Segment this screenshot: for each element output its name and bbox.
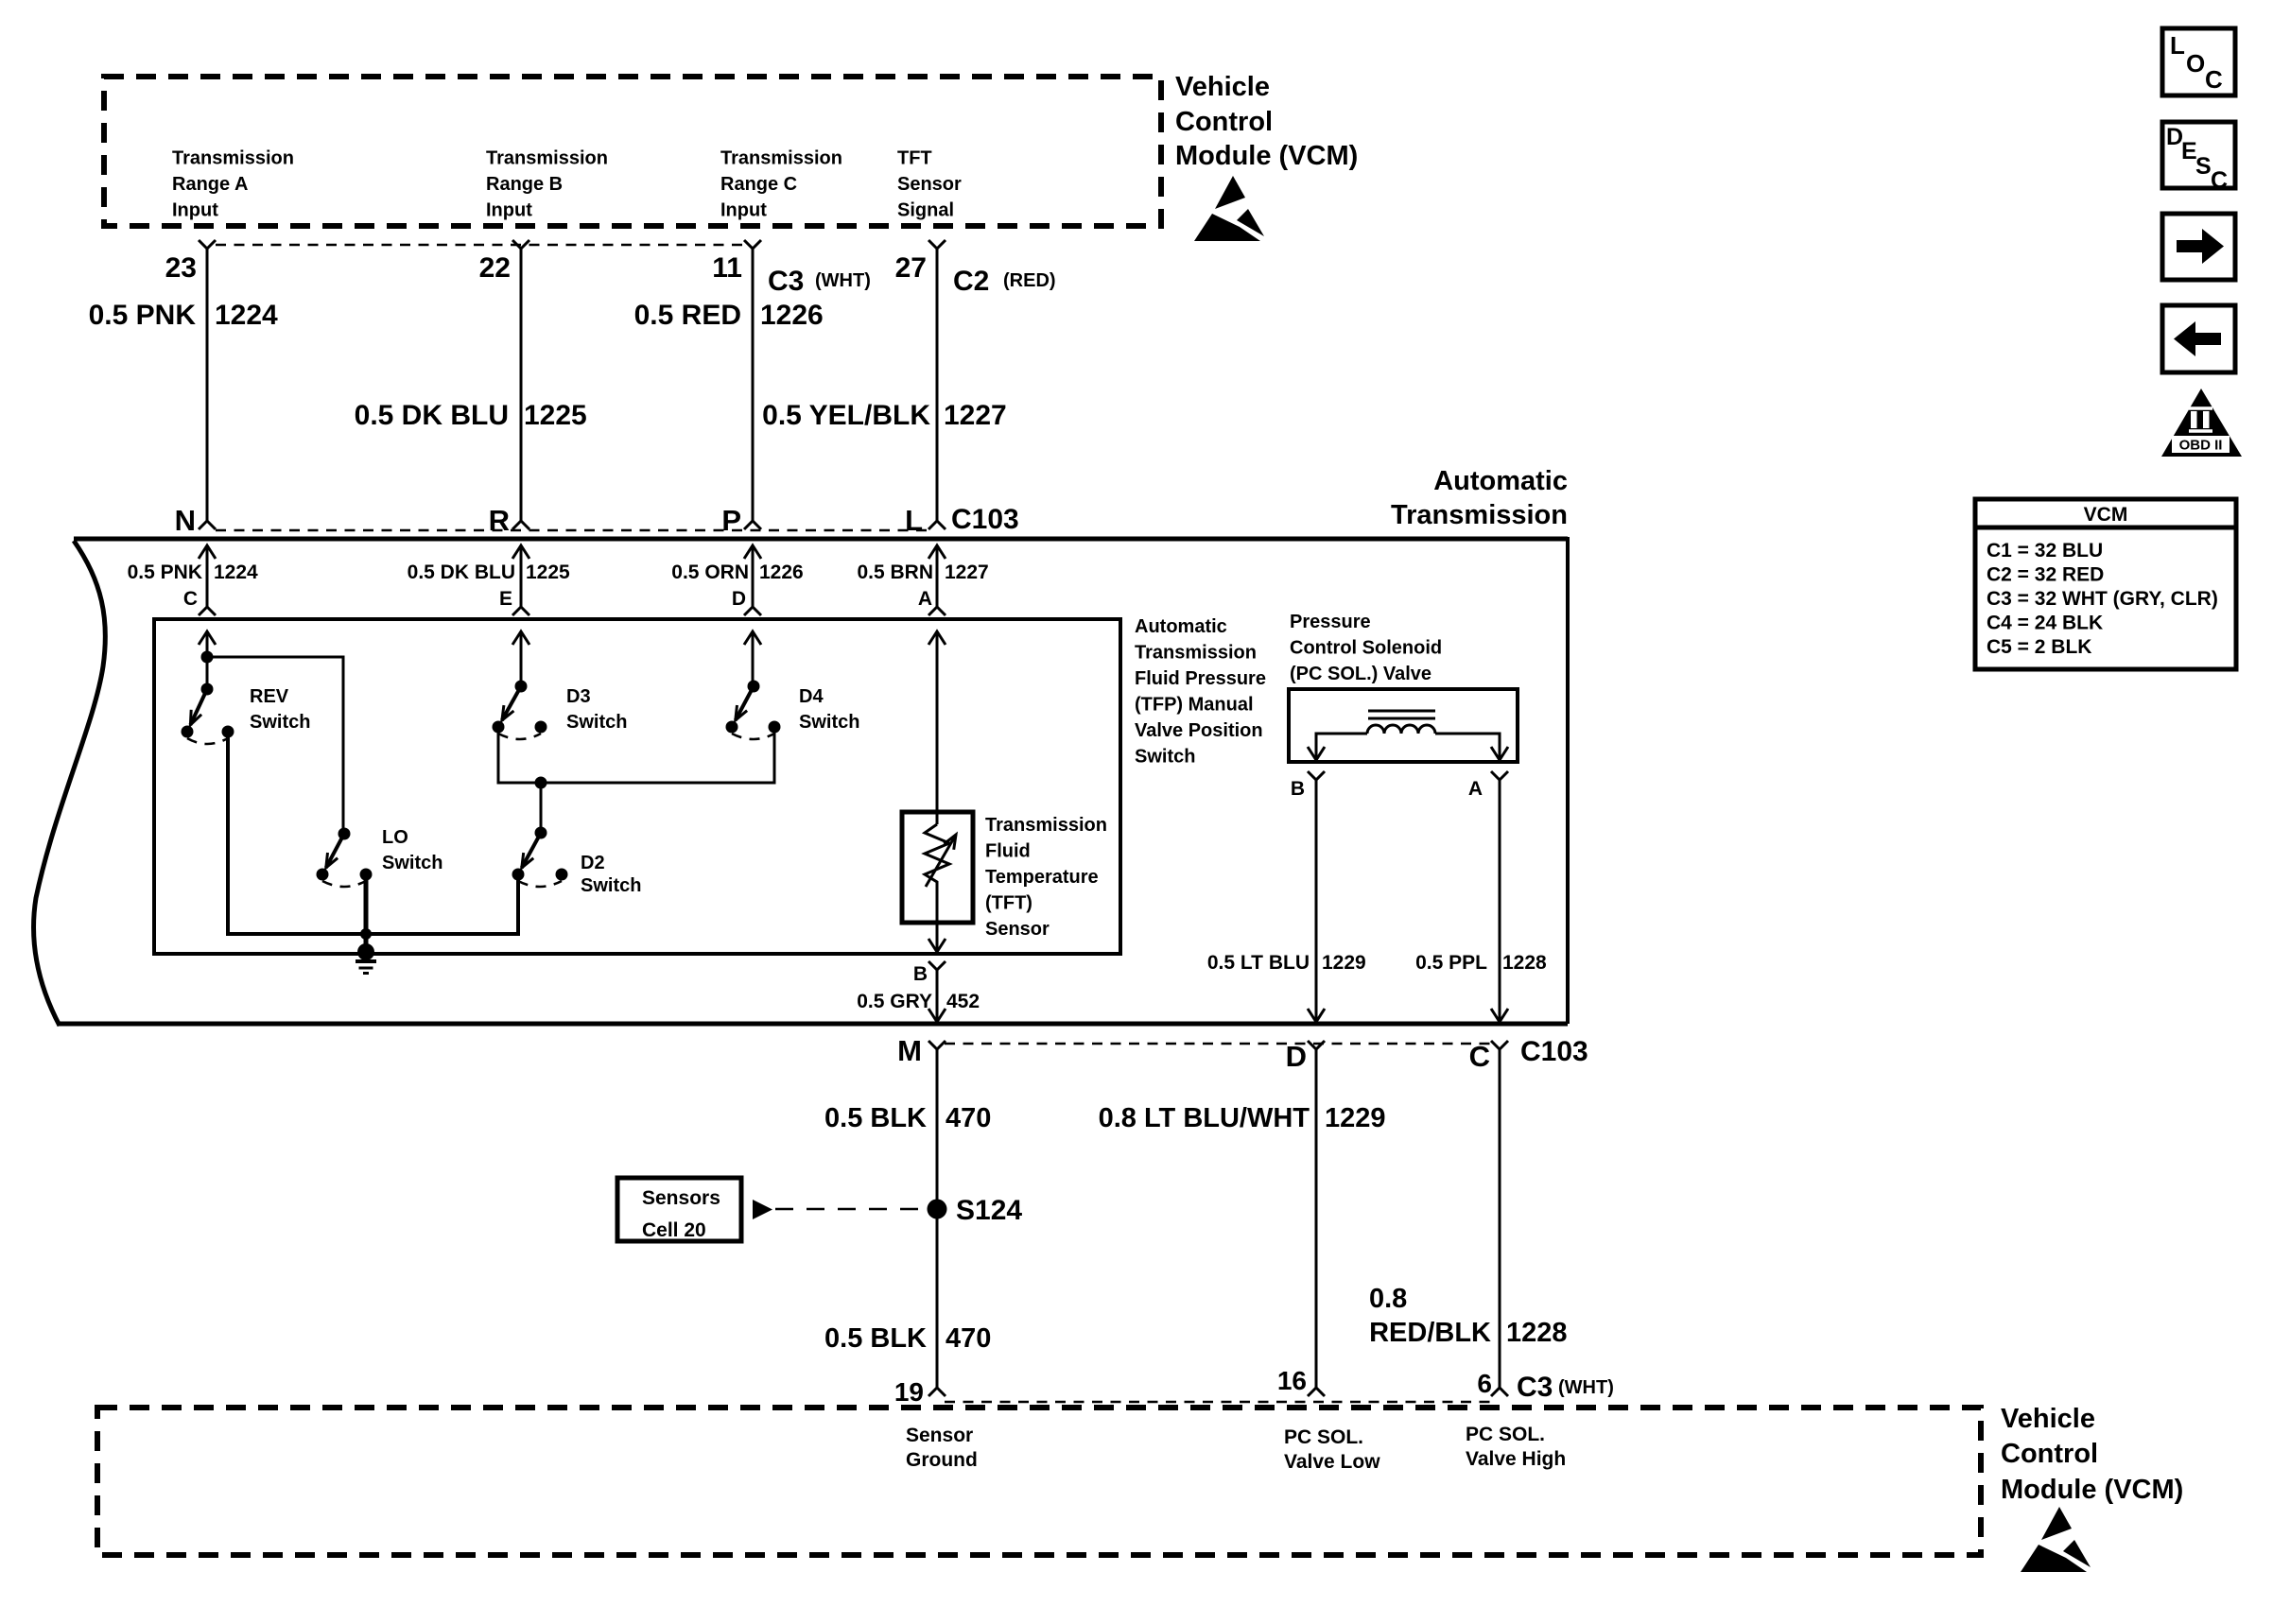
wire label 0.5 PNK 1224	[89, 300, 278, 331]
wire 470 BLK sensor ground	[936, 1049, 939, 1388]
wire label 0.5 RED 1226	[634, 300, 824, 331]
svg-text:S: S	[2195, 153, 2212, 180]
svg-text:0.5 PPL: 0.5 PPL	[1415, 952, 1487, 974]
TFP pin C	[183, 588, 216, 615]
pin label: Transmission Range C Input	[720, 148, 842, 221]
wire label 0.5 DK BLU 1225 inner	[408, 561, 570, 583]
svg-text:1227: 1227	[945, 561, 989, 583]
leader arrow triangle	[753, 1200, 772, 1219]
svg-text:(WHT): (WHT)	[815, 270, 871, 291]
Sensors Cell 20 reference box	[617, 1178, 741, 1241]
wire stub arrow into AT box col3	[744, 545, 761, 607]
bottom VCM module dashed box	[97, 1408, 1981, 1555]
svg-text:Input: Input	[720, 200, 767, 221]
svg-text:D3: D3	[566, 686, 591, 707]
svg-text:D: D	[732, 588, 746, 610]
VCM connector face dashed line bottom	[945, 1401, 1492, 1404]
wire: D3 contact to D3-D4 rail	[498, 727, 774, 783]
svg-text:19: 19	[894, 1377, 924, 1407]
wire label 0.5 DK BLU 1225	[355, 400, 587, 431]
splice S124	[928, 1195, 1023, 1226]
svg-text:470: 470	[946, 1323, 991, 1354]
svg-text:0.5 LT BLU: 0.5 LT BLU	[1207, 952, 1310, 974]
PC SOL pin B	[1291, 771, 1325, 800]
svg-text:16: 16	[1277, 1366, 1307, 1395]
svg-text:C: C	[2205, 65, 2223, 94]
svg-text:Valve Position: Valve Position	[1135, 720, 1263, 741]
svg-text:Control Solenoid: Control Solenoid	[1290, 638, 1442, 659]
wire: REV contact down to ground rail	[228, 732, 518, 934]
svg-text:Automatic: Automatic	[1135, 616, 1227, 637]
svg-text:Module (VCM): Module (VCM)	[2001, 1475, 2183, 1505]
REV switch input arrow	[199, 631, 216, 689]
label: Sensor Ground	[906, 1425, 978, 1471]
svg-text:11: 11	[712, 252, 742, 284]
svg-text:1225: 1225	[524, 400, 587, 431]
svg-text:Range A: Range A	[172, 174, 248, 195]
solenoid coil	[1367, 725, 1435, 734]
svg-text:1226: 1226	[759, 561, 804, 583]
svg-text:S124: S124	[956, 1195, 1022, 1226]
pin number 27	[895, 252, 927, 284]
svg-text:C4 = 24 BLK: C4 = 24 BLK	[1987, 613, 2103, 634]
svg-text:Fluid Pressure: Fluid Pressure	[1135, 668, 1266, 689]
automatic transmission box bottom edge	[59, 1022, 1568, 1027]
svg-text:1226: 1226	[760, 300, 824, 331]
svg-text:Sensors: Sensors	[642, 1187, 720, 1209]
svg-text:A: A	[1468, 778, 1483, 800]
wire stub arrow into AT box col4	[928, 545, 946, 607]
pin label: Transmission Range A Input	[172, 148, 294, 221]
DESC legend box	[2162, 122, 2235, 194]
wire 1229 LT BLU/WHT lower	[1315, 1049, 1318, 1388]
TFP pin B fork	[913, 961, 946, 985]
svg-text:Switch: Switch	[581, 875, 641, 896]
svg-text:Transmission: Transmission	[985, 815, 1107, 836]
D3 switch	[493, 681, 628, 740]
svg-text:23: 23	[165, 252, 197, 284]
svg-text:P: P	[721, 504, 741, 537]
pin 23 connector fork	[199, 240, 216, 249]
svg-text:1228: 1228	[1502, 952, 1547, 974]
svg-text:27: 27	[895, 252, 927, 284]
svg-text:M: M	[897, 1034, 922, 1067]
svg-text:LO: LO	[382, 827, 408, 848]
svg-text:(TFT): (TFT)	[985, 893, 1032, 914]
pin 11 connector fork	[744, 240, 761, 249]
svg-text:L: L	[2170, 31, 2185, 60]
svg-text:C3: C3	[1517, 1372, 1553, 1403]
svg-text:Input: Input	[172, 200, 218, 221]
TFP pin E	[499, 588, 529, 615]
wire label 0.5 YEL/BLK 1227	[762, 400, 1007, 431]
wire label 0.5 BLK 470 lower	[824, 1323, 991, 1354]
svg-text:0.5 PNK: 0.5 PNK	[128, 561, 202, 583]
wire label 0.5 GRY 452	[857, 991, 980, 1012]
svg-text:Module (VCM): Module (VCM)	[1175, 141, 1358, 171]
svg-text:0.5 BRN: 0.5 BRN	[857, 561, 933, 583]
PC SOL pin A	[1468, 771, 1508, 800]
svg-text:Switch: Switch	[566, 712, 627, 733]
D2 switch	[512, 827, 642, 897]
connector fork M	[897, 1034, 946, 1067]
connector id C3 (WHT) bottom	[1517, 1372, 1614, 1403]
node: rail junction to D2	[535, 777, 547, 834]
automatic transmission box right edge	[1566, 537, 1570, 1024]
C103 connector face dashed line	[216, 529, 929, 532]
node: REV-LO branch junction	[201, 651, 214, 664]
svg-text:1229: 1229	[1322, 952, 1366, 974]
node L	[905, 504, 923, 537]
svg-text:452: 452	[946, 991, 980, 1012]
wire: LO contact down to ground	[364, 874, 369, 951]
svg-text:Valve Low: Valve Low	[1284, 1451, 1380, 1473]
svg-text:Valve High: Valve High	[1466, 1448, 1566, 1470]
svg-text:Ground: Ground	[906, 1449, 978, 1471]
svg-text:D: D	[1286, 1040, 1307, 1073]
svg-text:0.5 ORN: 0.5 ORN	[671, 561, 749, 583]
wire label 0.5 BRN 1227 inner	[857, 561, 988, 583]
label: PC SOL. Valve High	[1466, 1424, 1566, 1470]
svg-text:C: C	[183, 588, 198, 610]
svg-text:RED/BLK: RED/BLK	[1369, 1318, 1491, 1348]
pin 6	[1477, 1369, 1508, 1398]
wire label 0.5 PPL 1228	[1415, 952, 1547, 974]
TFT thermistor element	[925, 824, 956, 892]
svg-text:(PC SOL.) Valve: (PC SOL.) Valve	[1290, 664, 1431, 684]
svg-text:Range B: Range B	[486, 174, 563, 195]
left arrow legend box	[2162, 305, 2235, 372]
wire 1225 DK BLU vertical VCM to C103	[520, 249, 523, 521]
svg-text:B: B	[1291, 778, 1305, 800]
automatic transmission box torn left edge curve	[34, 541, 106, 1026]
svg-text:1229: 1229	[1325, 1103, 1386, 1133]
svg-text:Automatic: Automatic	[1433, 466, 1568, 496]
svg-text:1224: 1224	[214, 561, 258, 583]
LOC legend box	[2162, 28, 2235, 95]
svg-text:D2: D2	[581, 853, 605, 873]
wire stub arrow into AT box col2	[512, 545, 529, 607]
connector fork C lower	[1469, 1040, 1508, 1073]
wire 1228 RED/BLK lower	[1499, 1049, 1501, 1388]
wire label 0.5 PNK 1224 inner	[128, 561, 258, 583]
svg-text:REV: REV	[250, 686, 289, 707]
svg-text:Transmission: Transmission	[1391, 500, 1568, 530]
pin 16	[1277, 1366, 1325, 1396]
svg-text:Sensor: Sensor	[897, 174, 962, 195]
svg-text:C1 = 32 BLU: C1 = 32 BLU	[1987, 540, 2103, 561]
wire 452 GRY TFT to C103	[928, 970, 946, 1022]
label: Vehicle Control Module (VCM) bottom	[2001, 1404, 2183, 1505]
TFT sensor output arrow	[928, 892, 946, 952]
svg-text:22: 22	[479, 252, 511, 284]
svg-text:VCM: VCM	[2084, 504, 2128, 526]
ESD static-sensitive symbol bottom	[2021, 1507, 2091, 1572]
wire 1224 PNK vertical VCM to C103	[206, 249, 209, 521]
connector id C103 lower	[1520, 1036, 1588, 1067]
wire label 0.5 ORN 1226 inner	[671, 561, 803, 583]
REV switch	[182, 683, 311, 745]
wire label 0.8 LT BLU/WHT 1229	[1099, 1103, 1386, 1133]
pin label: Transmission Range B Input	[486, 148, 608, 221]
svg-text:Fluid: Fluid	[985, 841, 1031, 862]
svg-text:0.5 YEL/BLK: 0.5 YEL/BLK	[762, 400, 930, 431]
wire 1226 RED vertical VCM to C103	[752, 249, 755, 521]
svg-text:Input: Input	[486, 200, 532, 221]
wire: branch to LO switch	[207, 657, 343, 834]
ESD static-sensitive symbol top	[1194, 176, 1264, 241]
pin number 22	[479, 252, 511, 284]
node: ground rail junction	[360, 928, 372, 940]
svg-text:1227: 1227	[944, 400, 1007, 431]
svg-text:Switch: Switch	[250, 712, 310, 733]
C103 lower connector face dashed line	[945, 1043, 1492, 1045]
svg-text:0.5 BLK: 0.5 BLK	[824, 1103, 927, 1133]
connector fork P	[744, 521, 761, 529]
label: Transmission Fluid Temperature (TFT) Sensor	[985, 815, 1107, 940]
svg-text:Pressure: Pressure	[1290, 612, 1371, 632]
transmission fluid temperature TFT sensor box	[902, 812, 973, 923]
node N	[175, 504, 196, 537]
label: Pressure Control Solenoid (PC SOL.) Valve	[1290, 612, 1442, 684]
connector id C3 (WHT)	[768, 266, 871, 297]
label: Vehicle Control Module (VCM) top	[1175, 72, 1358, 171]
pin 27 connector fork	[928, 240, 946, 249]
wire 1228 PPL solenoid to C103	[1491, 780, 1508, 1022]
VCM connector face dashed line top	[216, 244, 745, 247]
connector fork R	[512, 521, 529, 529]
svg-text:Sensor: Sensor	[985, 919, 1050, 940]
svg-text:Range C: Range C	[720, 174, 797, 195]
svg-text:0.5 DK BLU: 0.5 DK BLU	[408, 561, 515, 583]
wire 1227 YEL/BLK vertical VCM to C103	[936, 249, 939, 521]
svg-text:C5 = 2 BLK: C5 = 2 BLK	[1987, 636, 2091, 658]
svg-text:Switch: Switch	[1135, 747, 1195, 768]
svg-text:C: C	[1469, 1040, 1490, 1073]
svg-text:D4: D4	[799, 686, 824, 707]
svg-text:Switch: Switch	[799, 712, 859, 733]
svg-text:0.5 GRY: 0.5 GRY	[857, 991, 932, 1012]
svg-text:0.8 LT BLU/WHT: 0.8 LT BLU/WHT	[1099, 1103, 1310, 1133]
pressure control solenoid valve box	[1289, 689, 1518, 762]
svg-text:A: A	[918, 588, 932, 610]
svg-text:C2: C2	[953, 266, 989, 297]
svg-text:C103: C103	[1520, 1036, 1588, 1067]
svg-text:(TFP) Manual: (TFP) Manual	[1135, 695, 1254, 716]
svg-text:(RED): (RED)	[1003, 270, 1056, 291]
D4 switch	[726, 681, 860, 740]
label: Automatic Transmission	[1391, 466, 1568, 530]
D4 switch input arrow	[744, 631, 761, 686]
svg-text:O: O	[2186, 49, 2205, 78]
top VCM module dashed box	[104, 77, 1161, 226]
VCM connector legend table	[1975, 499, 2236, 669]
svg-text:C103: C103	[951, 504, 1019, 535]
connector id C103 top	[951, 504, 1019, 535]
svg-text:PC SOL.: PC SOL.	[1466, 1424, 1545, 1445]
connector fork D lower	[1286, 1040, 1325, 1073]
pin 19	[894, 1377, 946, 1407]
connector fork N	[199, 521, 216, 529]
svg-text:PC SOL.: PC SOL.	[1284, 1426, 1363, 1448]
svg-text:0.5 BLK: 0.5 BLK	[824, 1323, 927, 1354]
svg-text:0.5 RED: 0.5 RED	[634, 300, 741, 331]
svg-text:L: L	[905, 504, 923, 537]
svg-text:Transmission: Transmission	[172, 148, 294, 169]
LO switch	[317, 827, 443, 887]
svg-text:Transmission: Transmission	[1135, 643, 1257, 664]
automatic transmission box top edge	[74, 537, 1568, 542]
TFP pin D	[732, 588, 761, 615]
wire stub arrow into AT box col1	[199, 545, 216, 607]
svg-text:Sensor: Sensor	[906, 1425, 973, 1446]
right arrow legend box	[2162, 214, 2235, 280]
svg-text:Vehicle: Vehicle	[2001, 1404, 2095, 1434]
svg-text:C2 = 32 RED: C2 = 32 RED	[1987, 564, 2104, 586]
svg-text:N: N	[175, 504, 196, 537]
D3 switch input arrow	[512, 631, 529, 686]
svg-text:1225: 1225	[526, 561, 570, 583]
svg-text:Temperature: Temperature	[985, 867, 1099, 888]
svg-text:E: E	[499, 588, 512, 610]
svg-text:6: 6	[1477, 1369, 1492, 1398]
ground	[356, 943, 376, 974]
solenoid core lines	[1368, 711, 1435, 718]
svg-text:TFT: TFT	[897, 148, 932, 169]
svg-text:OBD II: OBD II	[2179, 438, 2223, 454]
TFT sensor input arrow	[928, 631, 946, 824]
svg-text:Signal: Signal	[897, 200, 954, 221]
node P	[721, 504, 741, 537]
svg-text:Control: Control	[1175, 107, 1273, 137]
svg-text:0.5 DK BLU: 0.5 DK BLU	[355, 400, 509, 431]
svg-text:Cell 20: Cell 20	[642, 1219, 706, 1241]
svg-text:R: R	[489, 504, 510, 537]
svg-text:C3: C3	[768, 266, 804, 297]
wire label 0.8 RED/BLK 1228	[1369, 1284, 1568, 1348]
pin label: TFT Sensor Signal	[897, 148, 962, 221]
wire label 0.5 BLK 470 upper	[824, 1103, 991, 1133]
label: Automatic Transmission Fluid Pressure (TFP) Manual Valve Position Switch	[1135, 616, 1266, 768]
dashed leader line to S124	[775, 1208, 925, 1211]
wire label 0.5 LT BLU 1229	[1207, 952, 1366, 974]
solenoid internal wires with arrows	[1308, 734, 1367, 760]
connector fork L	[928, 521, 946, 529]
svg-text:(WHT): (WHT)	[1558, 1377, 1614, 1398]
svg-text:C: C	[2211, 167, 2228, 194]
pin number 11	[712, 252, 742, 284]
svg-text:0.8: 0.8	[1369, 1284, 1407, 1314]
svg-text:Switch: Switch	[382, 853, 442, 873]
svg-text:Vehicle: Vehicle	[1175, 72, 1270, 102]
svg-text:1228: 1228	[1506, 1318, 1568, 1348]
label: PC SOL. Valve Low	[1284, 1426, 1380, 1473]
svg-text:470: 470	[946, 1103, 991, 1133]
svg-text:1224: 1224	[215, 300, 278, 331]
svg-text:Transmission: Transmission	[486, 148, 608, 169]
svg-text:B: B	[913, 963, 928, 985]
svg-text:0.5 PNK: 0.5 PNK	[89, 300, 197, 331]
TFP pin A	[918, 588, 946, 615]
node R	[489, 504, 510, 537]
wire 1229 LT BLU solenoid to C103	[1308, 780, 1325, 1022]
svg-text:Control: Control	[2001, 1439, 2098, 1469]
TFP manual valve position switch box	[154, 619, 1120, 954]
OBD II symbol	[2161, 389, 2242, 457]
connector id C2 (RED)	[953, 266, 1056, 297]
svg-text:C3 = 32 WHT (GRY, CLR): C3 = 32 WHT (GRY, CLR)	[1987, 588, 2218, 610]
pin number 23	[165, 252, 197, 284]
svg-text:Transmission: Transmission	[720, 148, 842, 169]
pin 22 connector fork	[512, 240, 529, 249]
